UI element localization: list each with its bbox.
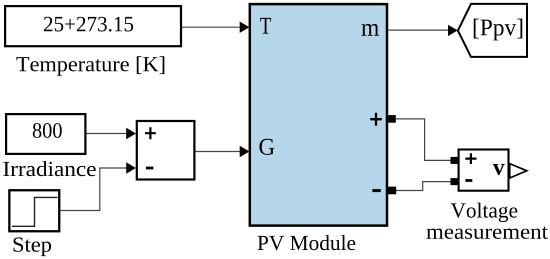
step waveform icon (12, 197, 58, 226)
port label G (259, 139, 274, 155)
input port square voltage + (451, 157, 458, 164)
label Voltage (451, 203, 518, 223)
output port square PV + (388, 115, 396, 123)
goto tag shape (458, 4, 527, 57)
step block (9, 190, 59, 231)
value 800 (33, 123, 62, 138)
wire 800 to sum + input (87, 128, 136, 139)
wire m output to goto tag (388, 25, 457, 36)
wire sum to G input (196, 146, 250, 157)
voltage block v symbol (493, 164, 505, 175)
sum block - sign (146, 167, 153, 170)
sum block + sign (145, 127, 156, 139)
constant block 800 (6, 114, 85, 154)
port label T (260, 18, 271, 34)
port label + on PV module (370, 113, 382, 126)
wire PV - to voltage - (396, 182, 451, 191)
PV Module block (250, 4, 387, 226)
output port square PV - (388, 187, 396, 195)
label Step (14, 237, 52, 256)
sum block (137, 121, 195, 180)
voltage block - sign (465, 179, 472, 182)
input port square voltage - (451, 178, 458, 185)
wire step to sum - input (60, 162, 135, 210)
label Temperature [K] (16, 56, 164, 76)
label measurement (426, 227, 547, 239)
value 25+273.15 (44, 17, 133, 32)
label Irradiance (3, 161, 95, 176)
output port triangle of voltage measurement (510, 164, 527, 178)
port label m (361, 24, 378, 36)
port label - on PV module (372, 189, 380, 192)
voltage measurement block (459, 150, 509, 191)
goto tag text [Ppv] (474, 19, 523, 41)
wire temperature to T input (182, 22, 249, 33)
wire PV + to voltage + (396, 119, 451, 160)
label PV Module (258, 235, 356, 250)
voltage block + sign (465, 153, 476, 164)
constant block 25+273.15 (5, 6, 181, 46)
